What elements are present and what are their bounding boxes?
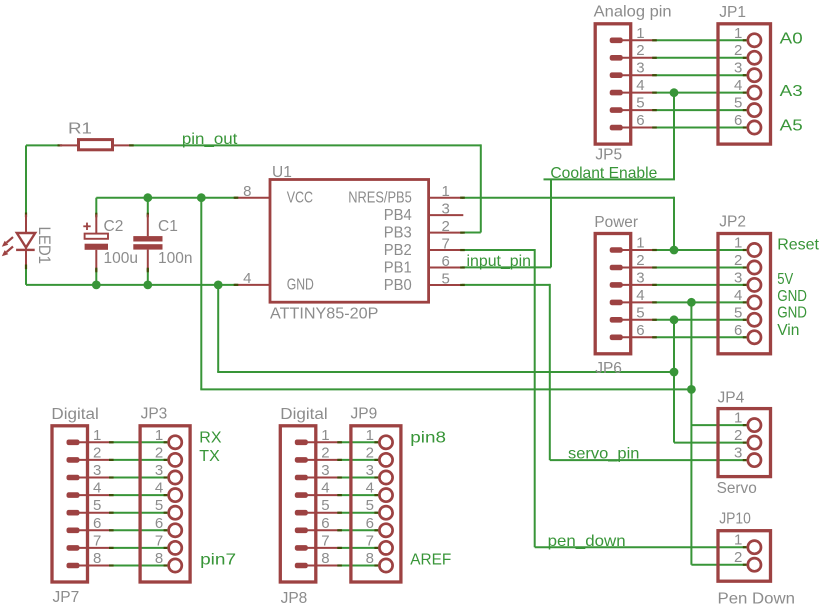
svg-text:6: 6 [636,112,644,129]
svg-text:Coolant Enable: Coolant Enable [550,165,657,182]
svg-text:6: 6 [155,515,163,532]
svg-text:100u: 100u [104,250,138,267]
svg-text:2: 2 [734,42,742,59]
svg-text:6: 6 [93,515,101,532]
svg-text:ATTINY85-20P: ATTINY85-20P [270,306,378,323]
svg-text:pen_down: pen_down [548,533,626,550]
svg-text:3: 3 [734,60,742,77]
svg-text:JP8: JP8 [281,590,308,606]
svg-text:LED1: LED1 [35,227,53,265]
svg-text:2: 2 [734,252,742,269]
svg-text:7: 7 [93,532,101,549]
svg-text:4: 4 [243,270,251,287]
wires JP5 to JP1 rows 1-6 [655,40,746,127]
svg-text:6: 6 [321,515,329,532]
svg-text:1: 1 [734,235,742,252]
svg-text:TX: TX [199,448,220,465]
svg-text:C2: C2 [104,218,124,235]
svg-text:RX: RX [199,429,222,446]
header JP8 Digital [280,406,342,606]
svg-text:C1: C1 [158,218,178,235]
svg-text:8: 8 [243,183,251,200]
svg-text:2: 2 [155,444,163,461]
svg-text:1: 1 [734,410,742,427]
header JP3 [140,406,190,583]
svg-text:6: 6 [442,253,450,270]
svg-text:100n: 100n [158,250,192,267]
wires JP7 to JP3 rows 1-8 [112,442,168,565]
net Reset: U1 NRES/PB5 to JP6.1/JP2.1 [462,197,674,250]
svg-text:3: 3 [366,462,374,479]
svg-text:pin_out: pin_out [182,131,238,148]
svg-text:1: 1 [321,427,329,444]
junction JP6 row1 Reset [670,246,679,255]
svg-text:5: 5 [93,497,101,514]
IC U1 ATTINY85-20P [234,164,465,323]
svg-text:U1: U1 [272,164,292,181]
svg-text:7: 7 [442,235,450,252]
svg-text:6: 6 [734,322,742,339]
header JP5 Analog pin [594,4,672,164]
junction C2 bottom on GND rail [92,280,101,289]
svg-text:AREF: AREF [410,551,451,568]
svg-text:2: 2 [636,42,644,59]
svg-text:8: 8 [366,550,374,567]
svg-text:2: 2 [442,218,450,235]
svg-text:3: 3 [734,269,742,286]
svg-text:5: 5 [636,304,644,321]
svg-text:4: 4 [366,480,374,497]
svg-text:4: 4 [155,480,163,497]
junction JP5 row4 Coolant Enable [670,88,679,97]
svg-text:1: 1 [93,427,101,444]
net Coolant Enable / input_pin: JP5.4 to U1 PB1 [462,93,675,268]
svg-text:2: 2 [734,427,742,444]
svg-text:1: 1 [734,25,742,42]
junction C1 bottom on GND rail [143,280,152,289]
svg-text:4: 4 [734,77,742,94]
header JP9 [351,406,401,583]
svg-text:JP9: JP9 [351,406,378,423]
net pen_down: U1 PB2 to JP10.1 [462,249,747,547]
svg-text:1: 1 [636,25,644,42]
svg-text:4: 4 [321,480,329,497]
svg-text:5: 5 [155,497,163,514]
junction VCC vertical on VCC rail [197,193,206,202]
svg-text:3: 3 [93,462,101,479]
svg-text:A3: A3 [780,83,803,100]
svg-text:1: 1 [636,235,644,252]
svg-text:JP10: JP10 [719,510,751,527]
junction GND long wire [670,368,679,377]
svg-text:5V: 5V [777,271,793,288]
svg-text:5: 5 [734,95,742,112]
svg-text:8: 8 [321,550,329,567]
svg-text:JP5: JP5 [595,146,622,163]
svg-text:input_pin: input_pin [467,253,532,270]
svg-text:PB3: PB3 [384,225,412,242]
svg-text:1: 1 [442,183,450,200]
svg-text:GND: GND [777,304,807,321]
svg-text:Pen Down: Pen Down [718,590,796,606]
svg-text:A5: A5 [780,118,803,135]
svg-text:3: 3 [636,269,644,286]
svg-text:GND: GND [777,288,807,305]
svg-text:1: 1 [155,427,163,444]
svg-text:2: 2 [93,444,101,461]
svg-text:4: 4 [636,287,644,304]
svg-text:PB0: PB0 [384,277,412,294]
svg-text:1: 1 [734,532,742,549]
svg-text:2: 2 [321,444,329,461]
svg-text:servo_pin: servo_pin [568,446,639,463]
svg-text:GND: GND [287,277,314,294]
svg-text:2: 2 [734,549,742,566]
svg-text:NRES/PB5: NRES/PB5 [348,190,412,207]
svg-text:Servo: Servo [717,480,757,497]
svg-text:3: 3 [734,445,742,462]
svg-text:Power: Power [594,214,638,231]
svg-text:Digital: Digital [280,406,327,423]
junction JP6 row4 VCC [687,298,696,307]
junction C1 top on VCC rail [143,193,152,202]
svg-text:8: 8 [93,550,101,567]
svg-text:2: 2 [366,444,374,461]
svg-text:R1: R1 [68,121,92,138]
svg-text:PB4: PB4 [384,207,412,224]
svg-text:VCC: VCC [287,190,313,207]
svg-text:5: 5 [636,95,644,112]
header JP10 Pen Down [718,510,796,606]
svg-text:4: 4 [636,77,644,94]
svg-text:3: 3 [442,201,450,218]
svg-text:PB2: PB2 [384,242,412,259]
svg-text:JP3: JP3 [141,406,168,423]
svg-text:pin8: pin8 [410,429,446,446]
net GND: rail, C2/C1 bottoms, U1 GND, long wire to JP2.5, JP4.2 [26,267,747,443]
svg-text:3: 3 [636,60,644,77]
svg-text:pin7: pin7 [200,551,236,568]
svg-text:JP1: JP1 [719,4,746,21]
svg-text:5: 5 [734,304,742,321]
svg-text:8: 8 [155,550,163,567]
wires JP6 to JP2 rows 1-6 [655,250,746,337]
LED LED1 [2,213,53,270]
svg-text:A0: A0 [780,30,803,47]
svg-text:6: 6 [366,515,374,532]
svg-text:7: 7 [366,532,374,549]
junction GND vertical on GND rail [214,280,223,289]
svg-text:4: 4 [93,480,101,497]
svg-text:5: 5 [366,497,374,514]
net pin_out: LED1/R1 to U1 PB3 [26,144,481,232]
svg-text:4: 4 [734,287,742,304]
svg-text:Reset: Reset [777,237,819,254]
svg-text:JP2: JP2 [719,214,746,231]
capacitor C2 100u [83,213,138,273]
svg-text:1: 1 [366,427,374,444]
svg-text:7: 7 [155,532,163,549]
svg-text:2: 2 [636,252,644,269]
svg-text:JP6: JP6 [595,360,622,377]
svg-text:Analog pin: Analog pin [594,4,672,21]
svg-text:JP7: JP7 [53,589,80,606]
svg-text:6: 6 [636,322,644,339]
header JP2 [718,214,771,354]
header JP4 Servo [717,389,771,497]
wires JP8 to JP9 rows 1-8 [341,442,379,565]
svg-text:6: 6 [734,112,742,129]
svg-text:Digital: Digital [51,406,98,423]
capacitor C1 100n [133,213,192,273]
svg-text:5: 5 [321,497,329,514]
junction JP6 row5 GND [670,315,679,324]
svg-text:PB1: PB1 [384,259,412,276]
resistor R1 [58,121,134,150]
svg-text:3: 3 [155,462,163,479]
svg-text:7: 7 [321,532,329,549]
svg-text:3: 3 [321,462,329,479]
net servo_pin: U1 PB0 to JP4.3 [462,284,747,460]
svg-text:JP4: JP4 [718,389,745,406]
header JP6 Power [594,214,656,377]
header JP7 Digital [51,406,113,606]
svg-text:5: 5 [442,270,450,287]
net VCC: rail, C2/C1 tops, U1 VCC, long wire to JP2.4, JP4.1, JP10.2 [96,198,746,565]
header JP1 [718,4,771,144]
junction VCC long wire [687,385,696,394]
svg-text:Vin: Vin [777,322,799,339]
